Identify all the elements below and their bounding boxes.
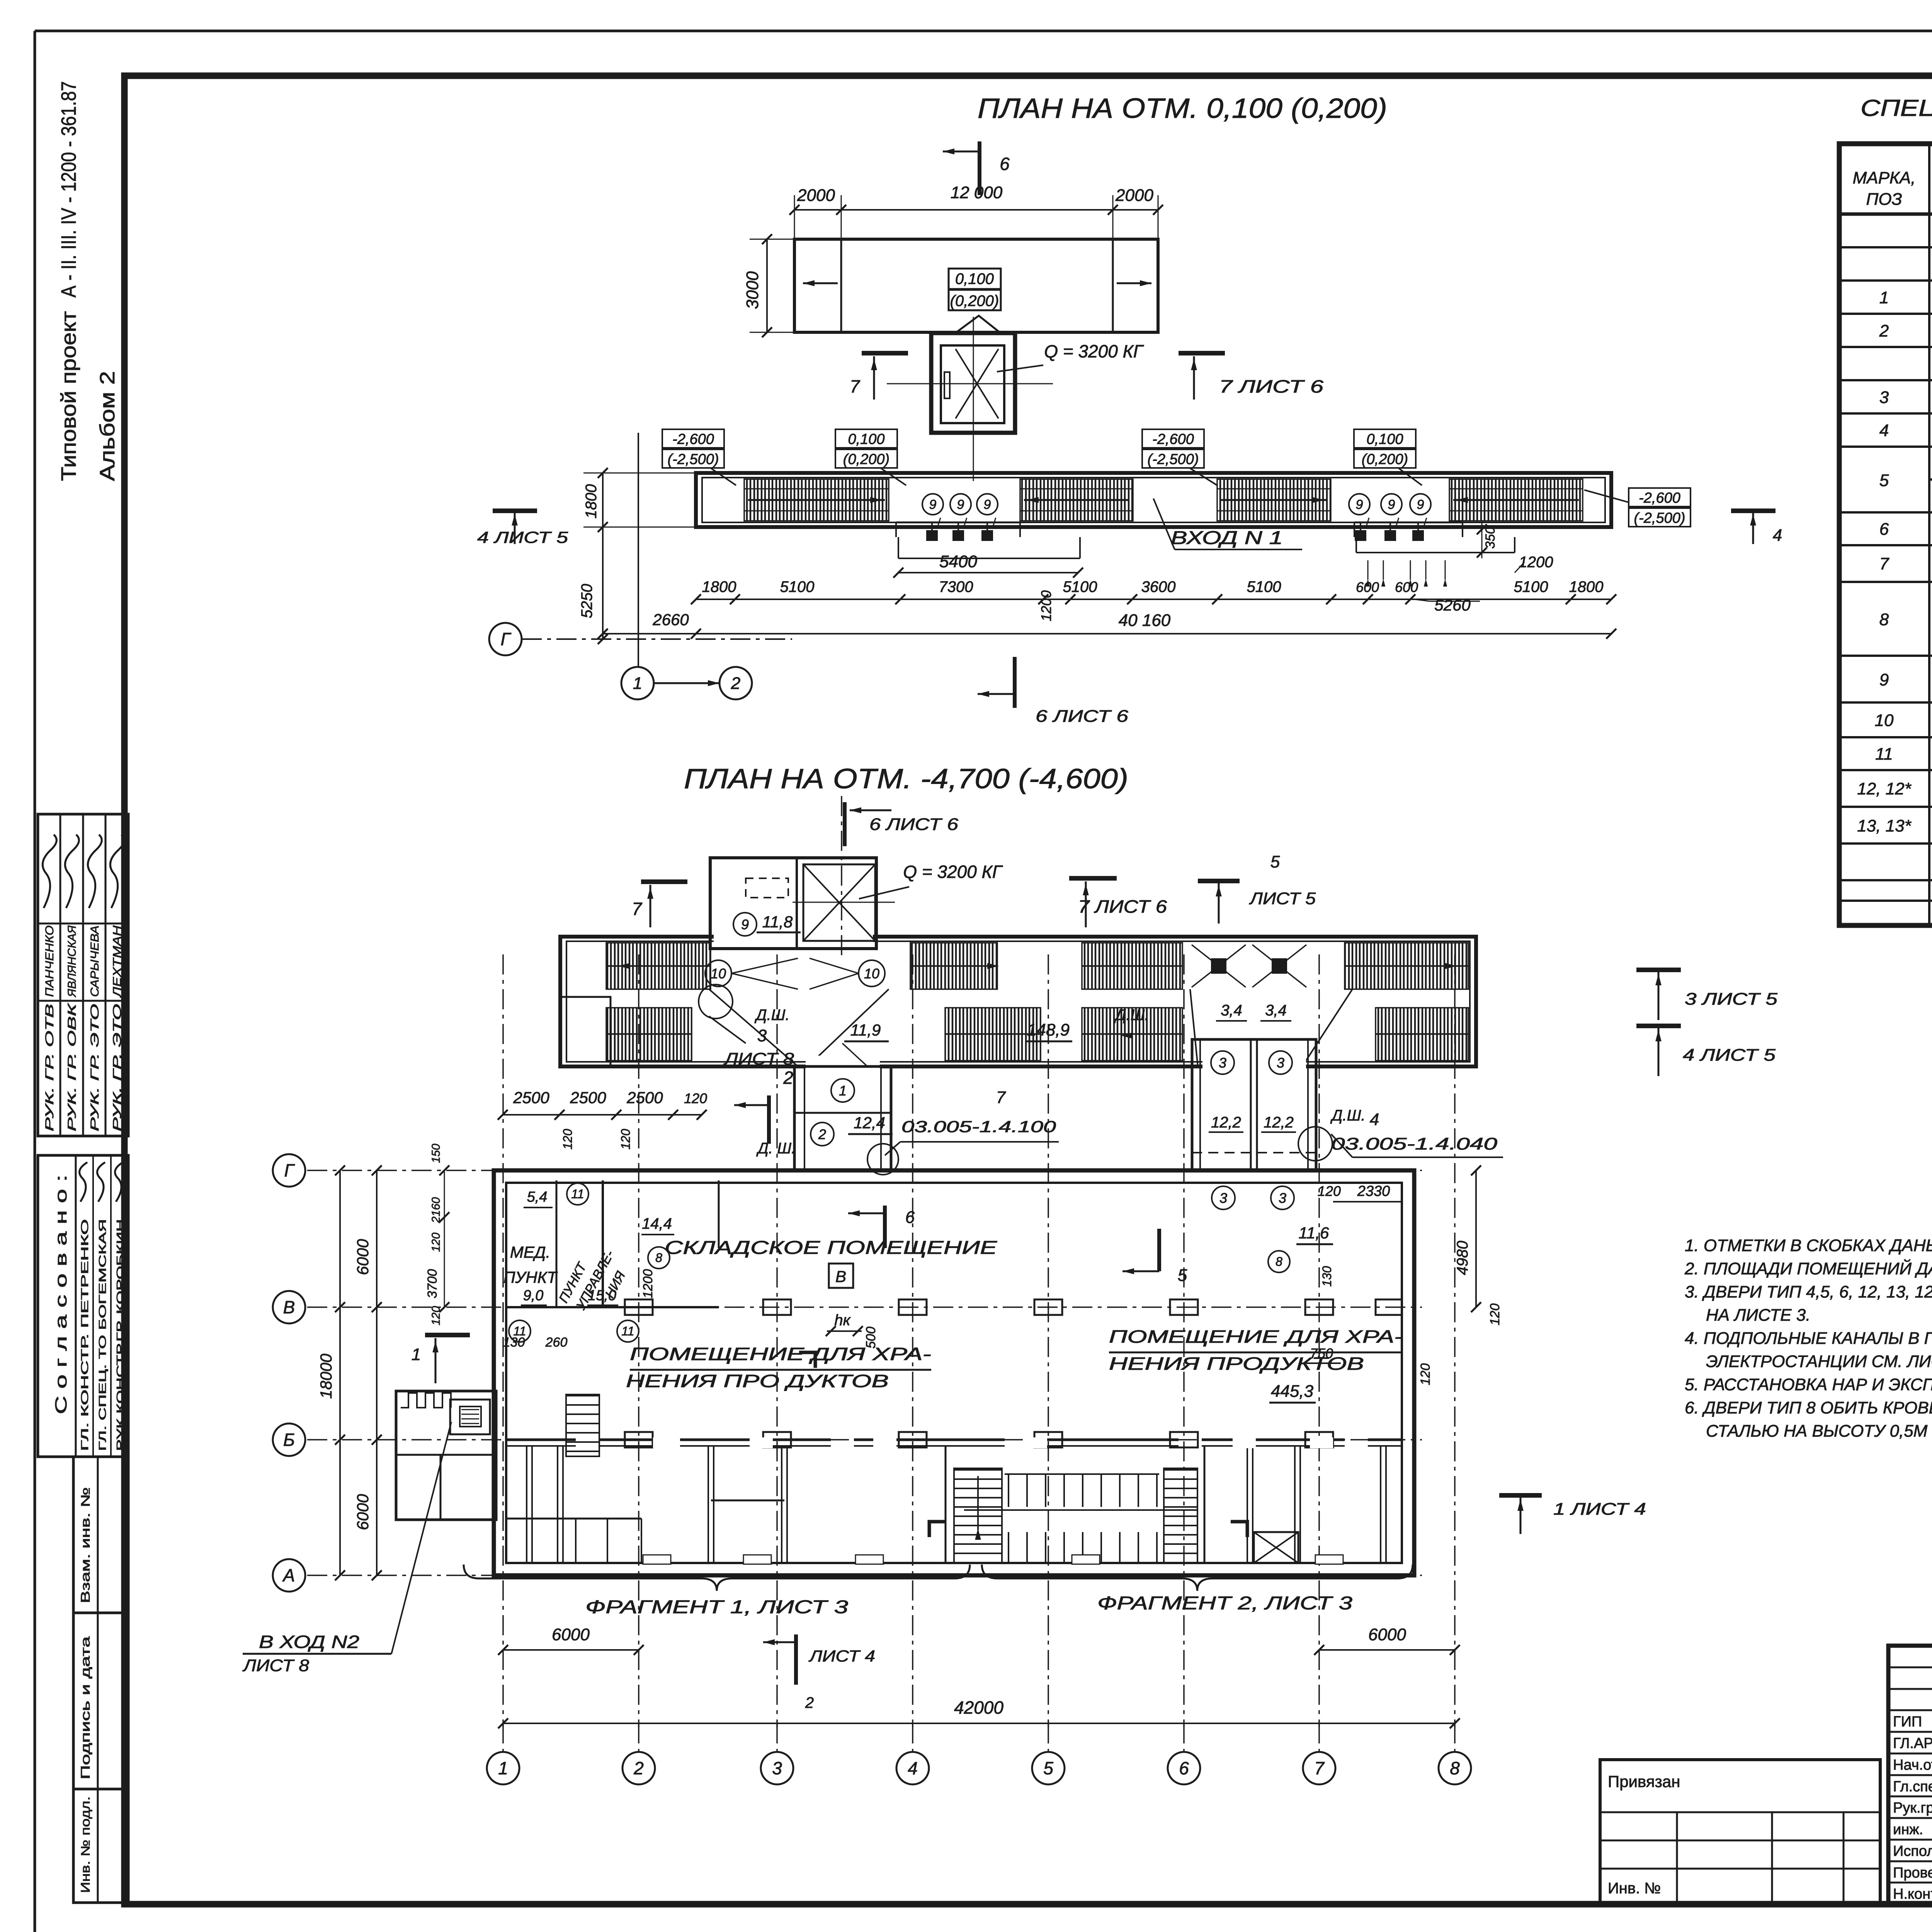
svg-text:10: 10 xyxy=(711,966,726,981)
svg-text:Q = 3200 КГ: Q = 3200 КГ xyxy=(1044,341,1144,361)
svg-text:1800: 1800 xyxy=(1569,578,1604,595)
svg-text:-2,600: -2,600 xyxy=(1639,490,1680,506)
svg-text:5: 5 xyxy=(1178,1266,1187,1285)
svg-text:ЛИСТ 5: ЛИСТ 5 xyxy=(1249,889,1316,908)
svg-text:350: 350 xyxy=(1483,527,1498,549)
svg-text:РУК.КОНСТР.ГР. КОРОБКИН: РУК.КОНСТР.ГР. КОРОБКИН xyxy=(114,1219,126,1451)
svg-text:3. ДВЕРИ ТИП 4,5, 6, 12, 13: 3. ДВЕРИ ТИП 4,5, 6, 12, 13, 12*, 13* ЗА… xyxy=(1685,1282,1932,1301)
svg-text:4: 4 xyxy=(1370,1110,1379,1129)
svg-text:ЛЕХТМАН: ЛЕХТМАН xyxy=(111,925,124,998)
svg-text:5250: 5250 xyxy=(578,584,595,618)
svg-text:(-2,500): (-2,500) xyxy=(1147,451,1199,468)
svg-text:600: 600 xyxy=(1395,579,1418,595)
svg-text:В: В xyxy=(283,1297,295,1317)
svg-text:6000: 6000 xyxy=(552,1625,590,1644)
svg-text:6: 6 xyxy=(1179,1758,1189,1778)
svg-text:9: 9 xyxy=(1417,497,1424,512)
svg-text:7: 7 xyxy=(1879,554,1889,573)
svg-text:ЭЛЕКТРОСТАНЦИИ СМ. ЛИСТ 10.: ЭЛЕКТРОСТАНЦИИ СМ. ЛИСТ 10. xyxy=(1706,1352,1932,1371)
svg-text:(0,200): (0,200) xyxy=(1362,451,1408,468)
svg-text:ПОЗ: ПОЗ xyxy=(1866,190,1902,209)
svg-text:МЕД.: МЕД. xyxy=(510,1243,550,1261)
svg-text:12,2: 12,2 xyxy=(1211,1114,1241,1131)
svg-text:5100: 5100 xyxy=(780,578,815,595)
svg-text:ЛИСТ 4: ЛИСТ 4 xyxy=(808,1647,875,1665)
svg-text:9,0: 9,0 xyxy=(523,1287,544,1304)
svg-text:ПЛАН НА ОТМ. 0,100 (0,20: ПЛАН НА ОТМ. 0,100 (0,200) xyxy=(978,93,1387,124)
svg-text:3700: 3700 xyxy=(425,1269,440,1298)
svg-text:11: 11 xyxy=(571,1187,584,1201)
svg-text:2000: 2000 xyxy=(1115,186,1153,205)
svg-text:14,4: 14,4 xyxy=(642,1215,672,1232)
svg-text:4 ЛИСТ 5: 4 ЛИСТ 5 xyxy=(477,528,568,546)
svg-text:10: 10 xyxy=(1875,711,1894,730)
svg-text:4980: 4980 xyxy=(1454,1241,1471,1275)
svg-text:1: 1 xyxy=(633,674,642,693)
svg-text:Провер.: Провер. xyxy=(1893,1865,1932,1881)
svg-text:7 ЛИСТ 6: 7 ЛИСТ 6 xyxy=(1078,896,1167,917)
svg-text:260: 260 xyxy=(545,1335,568,1350)
svg-text:750: 750 xyxy=(1310,1345,1333,1361)
svg-text:В: В xyxy=(835,1267,846,1286)
svg-text:6. ДВЕРИ ТИП 8 ОБИТЬ КРОВЕ: 6. ДВЕРИ ТИП 8 ОБИТЬ КРОВЕЛЬНОЙ ОЦИНКОВА… xyxy=(1685,1398,1932,1417)
svg-text:5: 5 xyxy=(1270,852,1280,871)
svg-text:1800: 1800 xyxy=(583,484,600,519)
svg-text:12, 12*: 12, 12* xyxy=(1857,779,1912,798)
svg-text:ВХОД N 1: ВХОД N 1 xyxy=(1171,528,1283,548)
svg-text:6000: 6000 xyxy=(354,1239,372,1275)
svg-text:12,2: 12,2 xyxy=(1264,1114,1294,1131)
svg-text:Нач.отд.: Нач.отд. xyxy=(1893,1757,1932,1773)
svg-text:СКЛАДСКОЕ ПОМЕЩЕНИЕ: СКЛАДСКОЕ ПОМЕЩЕНИЕ xyxy=(665,1238,997,1258)
svg-text:ГЛ.АРХ.: ГЛ.АРХ. xyxy=(1893,1735,1932,1752)
svg-text:2330: 2330 xyxy=(1357,1183,1390,1199)
svg-text:120: 120 xyxy=(619,1129,633,1150)
svg-text:-2,600: -2,600 xyxy=(672,431,714,447)
svg-text:2: 2 xyxy=(731,674,740,693)
svg-text:РУК. ГР. ОТВ: РУК. ГР. ОТВ xyxy=(43,1004,56,1131)
svg-text:1200: 1200 xyxy=(641,1269,655,1298)
svg-text:7: 7 xyxy=(632,899,642,919)
svg-text:6000: 6000 xyxy=(1368,1625,1406,1644)
svg-text:инж.: инж. xyxy=(1893,1821,1923,1838)
svg-text:6: 6 xyxy=(1000,154,1010,174)
svg-text:2500: 2500 xyxy=(513,1088,549,1107)
svg-text:РУК. ГР. ОВК: РУК. ГР. ОВК xyxy=(66,1002,78,1131)
svg-text:3600: 3600 xyxy=(1141,578,1176,595)
svg-text:1: 1 xyxy=(1879,288,1889,307)
svg-text:НЕНИЯ ПРО ДУКТОВ: НЕНИЯ ПРО ДУКТОВ xyxy=(626,1371,889,1391)
svg-text:1: 1 xyxy=(839,1083,847,1099)
svg-text:40 160: 40 160 xyxy=(1119,611,1171,630)
svg-text:3: 3 xyxy=(772,1758,782,1778)
svg-text:Взам. инв. №: Взам. инв. № xyxy=(78,1487,92,1603)
svg-text:ГЛ. КОНСТР. ПЕТРЕНКО: ГЛ. КОНСТР. ПЕТРЕНКО xyxy=(79,1219,90,1451)
svg-text:3: 3 xyxy=(1219,1190,1227,1206)
svg-text:9: 9 xyxy=(1879,670,1889,689)
svg-text:Привязан: Привязан xyxy=(1608,1772,1680,1791)
svg-text:8: 8 xyxy=(1276,1255,1282,1269)
svg-text:2660: 2660 xyxy=(652,611,689,629)
svg-text:03.005-1.4.040: 03.005-1.4.040 xyxy=(1331,1134,1498,1153)
svg-text:ПУНКТ: ПУНКТ xyxy=(503,1268,558,1286)
svg-text:5: 5 xyxy=(1043,1758,1053,1778)
svg-text:7 ЛИСТ 6: 7 ЛИСТ 6 xyxy=(1219,376,1324,396)
svg-text:11,8: 11,8 xyxy=(762,913,793,931)
svg-text:ГИП: ГИП xyxy=(1893,1714,1922,1730)
svg-text:5100: 5100 xyxy=(1247,578,1281,595)
svg-text:1: 1 xyxy=(498,1758,508,1778)
svg-text:12 000: 12 000 xyxy=(951,183,1003,202)
svg-text:(-2,500): (-2,500) xyxy=(1634,510,1685,526)
svg-text:Д.Ш.: Д.Ш. xyxy=(1114,1007,1149,1024)
svg-text:150: 150 xyxy=(430,1144,442,1163)
svg-text:8: 8 xyxy=(1879,610,1889,629)
svg-text:3000: 3000 xyxy=(743,271,762,309)
svg-text:1 ЛИСТ 4: 1 ЛИСТ 4 xyxy=(1553,1500,1646,1519)
svg-text:130: 130 xyxy=(1320,1266,1334,1287)
svg-text:2: 2 xyxy=(805,1694,814,1711)
svg-text:6: 6 xyxy=(905,1208,915,1227)
svg-text:Подпись и дата: Подпись и дата xyxy=(78,1636,92,1779)
svg-text:ПОМЕЩЕНИЕ ДЛЯ ХРА-: ПОМЕЩЕНИЕ ДЛЯ ХРА- xyxy=(630,1344,931,1364)
svg-text:Г: Г xyxy=(500,629,511,649)
svg-text:2500: 2500 xyxy=(626,1088,663,1107)
svg-text:СПЕЦИФИКАЦИЯ ЗАПОЛНЕНИЯ ПР: СПЕЦИФИКАЦИЯ ЗАПОЛНЕНИЯ ПРОЕМОВ ВОРОТ И … xyxy=(1861,95,1932,121)
svg-text:5400: 5400 xyxy=(939,552,977,571)
svg-text:3: 3 xyxy=(757,1026,767,1045)
svg-text:ФРАГМЕНТ 2, ЛИСТ 3: ФРАГМЕНТ 2, ЛИСТ 3 xyxy=(1097,1593,1352,1614)
svg-text:7: 7 xyxy=(996,1088,1006,1107)
svg-text:4: 4 xyxy=(1879,421,1889,440)
svg-text:Н.контр.: Н.контр. xyxy=(1893,1886,1932,1902)
svg-text:ПОМЕЩЕНИЕ ДЛЯ ХРА-: ПОМЕЩЕНИЕ ДЛЯ ХРА- xyxy=(1109,1327,1403,1347)
svg-text:Б: Б xyxy=(283,1430,295,1450)
svg-text:ФРАГМЕНТ 1, ЛИСТ 3: ФРАГМЕНТ 1, ЛИСТ 3 xyxy=(585,1597,848,1617)
svg-text:hк: hк xyxy=(834,1312,851,1329)
svg-text:5,4: 5,4 xyxy=(527,1189,548,1205)
svg-text:5100: 5100 xyxy=(1063,578,1097,595)
svg-text:15,0: 15,0 xyxy=(588,1287,616,1304)
svg-text:42000: 42000 xyxy=(954,1697,1003,1718)
svg-text:6: 6 xyxy=(1879,520,1889,539)
svg-text:11: 11 xyxy=(621,1324,634,1338)
svg-text:Рук.гр: Рук.гр xyxy=(1893,1800,1932,1816)
svg-text:МАРКА,: МАРКА, xyxy=(1853,168,1916,187)
svg-text:11,6: 11,6 xyxy=(1299,1224,1329,1242)
svg-text:5: 5 xyxy=(1879,471,1889,490)
svg-text:0,100: 0,100 xyxy=(848,431,884,447)
svg-text:3,4: 3,4 xyxy=(1221,1002,1242,1019)
svg-text:445,3: 445,3 xyxy=(1271,1382,1314,1401)
svg-text:НА ЛИСТЕ 3.: НА ЛИСТЕ 3. xyxy=(1706,1306,1810,1325)
svg-text:Инв. № подл.: Инв. № подл. xyxy=(78,1796,92,1893)
svg-text:148,9: 148,9 xyxy=(1027,1020,1070,1039)
svg-text:3: 3 xyxy=(1219,1055,1226,1071)
svg-text:11,9: 11,9 xyxy=(850,1021,881,1039)
svg-text:3: 3 xyxy=(1279,1190,1286,1206)
svg-text:7300: 7300 xyxy=(939,578,973,595)
svg-text:11: 11 xyxy=(1875,745,1893,764)
svg-text:120: 120 xyxy=(430,1306,442,1325)
svg-text:4: 4 xyxy=(908,1758,918,1778)
svg-text:9: 9 xyxy=(984,497,991,512)
svg-text:Гл.спец.: Гл.спец. xyxy=(1893,1779,1932,1795)
svg-text:5260: 5260 xyxy=(1434,596,1471,614)
svg-text:СТАЛЬЮ НА ВЫСОТУ 0,5М ОТ П: СТАЛЬЮ НА ВЫСОТУ 0,5М ОТ ПОЛА . xyxy=(1706,1422,1932,1440)
svg-text:3,4: 3,4 xyxy=(1265,1002,1287,1019)
svg-text:ГЛ. СПЕЦ. ТО БОГЕМСКАЯ: ГЛ. СПЕЦ. ТО БОГЕМСКАЯ xyxy=(97,1219,108,1451)
svg-text:Д. Ш.: Д. Ш. xyxy=(756,1140,796,1157)
svg-text:3: 3 xyxy=(1277,1055,1284,1071)
svg-text:120: 120 xyxy=(684,1090,707,1106)
svg-text:2: 2 xyxy=(818,1126,826,1142)
svg-text:2160: 2160 xyxy=(430,1197,442,1223)
svg-text:7: 7 xyxy=(850,376,860,396)
svg-text:А - II. III. IV - 1200 - 361.8: А - II. III. IV - 1200 - 361.87 xyxy=(57,81,80,298)
svg-text:18000: 18000 xyxy=(317,1354,335,1399)
svg-text:1800: 1800 xyxy=(702,578,736,595)
svg-text:В ХОД N2: В ХОД N2 xyxy=(259,1632,359,1652)
svg-text:120: 120 xyxy=(561,1129,575,1150)
svg-text:1. ОТМЕТКИ В СКОБКАХ ДАНЫ: 1. ОТМЕТКИ В СКОБКАХ ДАНЫ ДЛЯ А-III,IV- … xyxy=(1685,1236,1932,1255)
svg-text:Д.Ш.: Д.Ш. xyxy=(754,1007,789,1024)
svg-text:9: 9 xyxy=(1356,497,1363,512)
svg-text:Типовой проект: Типовой проект xyxy=(57,311,80,481)
svg-text:1: 1 xyxy=(412,1345,421,1364)
svg-text:120: 120 xyxy=(1418,1363,1433,1385)
svg-text:РУК. ГР. ЭТО: РУК. ГР. ЭТО xyxy=(88,1004,101,1131)
svg-text:8: 8 xyxy=(1450,1758,1460,1778)
svg-text:12,4: 12,4 xyxy=(854,1114,885,1132)
svg-text:6000: 6000 xyxy=(354,1494,372,1530)
svg-text:РУК. ГР. ЭТО: РУК. ГР. ЭТО xyxy=(111,1004,124,1131)
svg-text:6 ЛИСТ 6: 6 ЛИСТ 6 xyxy=(869,815,959,834)
svg-text:5100: 5100 xyxy=(1514,578,1548,595)
svg-text:С о г л а с о в а н о :: С о г л а с о в а н о : xyxy=(52,1175,70,1414)
svg-text:5. РАССТАНОВКА НАР И ЭКСПЛИ: 5. РАССТАНОВКА НАР И ЭКСПЛИКАЦИЯ ПОМЕЩЕН… xyxy=(1685,1374,1932,1394)
svg-text:Альбом 2: Альбом 2 xyxy=(96,371,119,481)
svg-text:2: 2 xyxy=(1879,321,1889,340)
svg-text:4: 4 xyxy=(1773,526,1782,545)
svg-text:9: 9 xyxy=(741,917,749,932)
svg-text:4 ЛИСТ 5: 4 ЛИСТ 5 xyxy=(1683,1046,1776,1065)
svg-text:9: 9 xyxy=(1388,497,1395,512)
svg-text:10: 10 xyxy=(864,966,879,981)
svg-text:Инв. №: Инв. № xyxy=(1608,1880,1661,1897)
svg-text:1200: 1200 xyxy=(1038,590,1054,621)
svg-text:А: А xyxy=(282,1565,295,1585)
svg-text:(0,200): (0,200) xyxy=(950,293,999,310)
svg-text:4. ПОДПОЛЬНЫЕ КАНАЛЫ В ПО: 4. ПОДПОЛЬНЫЕ КАНАЛЫ В ПОМЕЩЕНИИ ДИЗЕЛЬН… xyxy=(1685,1328,1932,1348)
svg-text:7: 7 xyxy=(1314,1758,1325,1778)
svg-text:Исполн.: Исполн. xyxy=(1893,1843,1932,1859)
svg-text:2500: 2500 xyxy=(570,1088,606,1107)
svg-text:САРЫЧЕВА: САРЫЧЕВА xyxy=(88,925,101,997)
svg-text:2. ПЛОЩАДИ ПОМЕЩЕНИЙ ДАНЫ: 2. ПЛОЩАДИ ПОМЕЩЕНИЙ ДАНЫ ДЛЯ А-II- 1200… xyxy=(1684,1259,1932,1278)
svg-text:3: 3 xyxy=(1879,388,1889,407)
svg-text:9: 9 xyxy=(929,497,937,512)
svg-text:(0,200): (0,200) xyxy=(843,451,889,468)
svg-text:9: 9 xyxy=(957,497,964,512)
svg-text:8: 8 xyxy=(655,1251,662,1265)
svg-text:ЛИСТ 8: ЛИСТ 8 xyxy=(242,1656,310,1675)
svg-text:6 ЛИСТ 6: 6 ЛИСТ 6 xyxy=(1036,707,1129,726)
svg-text:ЛИСТ 8: ЛИСТ 8 xyxy=(723,1049,794,1068)
svg-text:0,100: 0,100 xyxy=(955,270,994,287)
svg-text:130: 130 xyxy=(503,1335,525,1350)
svg-text:120: 120 xyxy=(1488,1303,1502,1325)
svg-text:13, 13*: 13, 13* xyxy=(1857,816,1912,835)
svg-text:120: 120 xyxy=(1318,1183,1341,1199)
svg-text:-2,600: -2,600 xyxy=(1152,431,1194,447)
svg-text:0,100: 0,100 xyxy=(1366,431,1403,447)
svg-text:2: 2 xyxy=(783,1068,793,1088)
svg-text:ПЛАН НА ОТМ. -4,700 (-4,6: ПЛАН НА ОТМ. -4,700 (-4,600) xyxy=(684,764,1128,794)
svg-text:Q = 3200 КГ: Q = 3200 КГ xyxy=(903,862,1003,882)
svg-text:3 ЛИСТ 5: 3 ЛИСТ 5 xyxy=(1685,990,1778,1009)
svg-text:ПАНЧЕНКО: ПАНЧЕНКО xyxy=(43,925,56,997)
svg-text:03.005-1.4.100: 03.005-1.4.100 xyxy=(901,1117,1056,1136)
svg-text:120: 120 xyxy=(430,1233,442,1252)
svg-text:Д.Ш.: Д.Ш. xyxy=(1330,1107,1365,1124)
svg-text:2: 2 xyxy=(633,1758,644,1778)
svg-text:Г: Г xyxy=(284,1160,295,1180)
svg-text:(-2,500): (-2,500) xyxy=(667,451,719,468)
svg-text:ЯВЛЯНСКАЯ: ЯВЛЯНСКАЯ xyxy=(66,925,78,998)
svg-text:2000: 2000 xyxy=(797,186,835,205)
